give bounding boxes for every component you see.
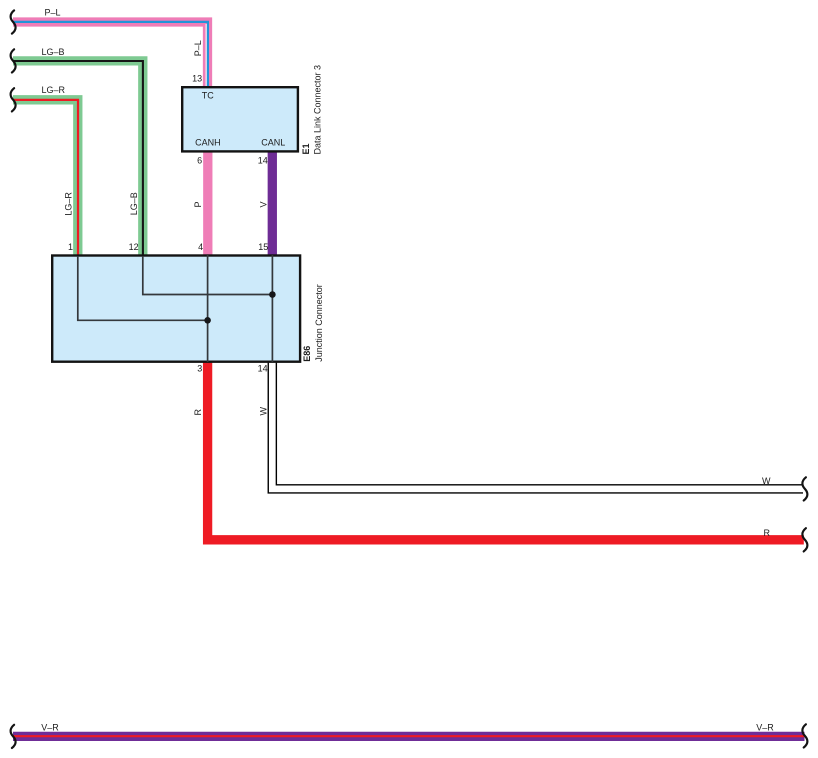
svg-text:W: W <box>259 407 269 416</box>
svg-text:13: 13 <box>192 74 202 84</box>
svg-text:LG–B: LG–B <box>42 47 65 57</box>
svg-text:4: 4 <box>198 242 203 252</box>
svg-text:P: P <box>193 201 203 207</box>
svg-text:R: R <box>764 528 771 538</box>
svg-text:P–L: P–L <box>193 40 203 56</box>
svg-text:6: 6 <box>197 156 202 166</box>
svg-text:E1: E1 <box>301 143 311 154</box>
svg-text:LG–R: LG–R <box>63 192 73 216</box>
svg-text:14: 14 <box>258 156 268 166</box>
svg-text:LG–B: LG–B <box>129 192 139 215</box>
svg-text:V: V <box>259 201 269 207</box>
svg-text:W: W <box>762 476 771 486</box>
svg-text:TC: TC <box>202 90 214 100</box>
svg-text:LG–R: LG–R <box>42 85 66 95</box>
svg-text:1: 1 <box>68 242 73 252</box>
svg-text:R: R <box>193 409 203 416</box>
svg-text:P–L: P–L <box>45 7 61 17</box>
svg-text:Data Link Connector 3: Data Link Connector 3 <box>313 65 323 155</box>
svg-text:V–R: V–R <box>756 722 774 732</box>
svg-text:3: 3 <box>197 364 202 374</box>
svg-text:E86: E86 <box>302 346 312 362</box>
svg-text:14: 14 <box>258 364 268 374</box>
svg-text:15: 15 <box>258 242 268 252</box>
svg-text:V–R: V–R <box>41 723 59 733</box>
svg-text:12: 12 <box>129 242 139 252</box>
svg-text:CANL: CANL <box>261 138 285 148</box>
svg-text:Junction Connector: Junction Connector <box>314 284 324 362</box>
svg-text:CANH: CANH <box>195 138 221 148</box>
